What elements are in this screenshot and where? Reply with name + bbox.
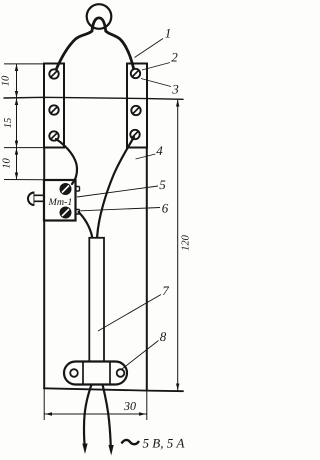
- svg-text:8: 8: [160, 329, 167, 344]
- svg-text:10: 10: [2, 158, 13, 169]
- svg-text:10: 10: [1, 75, 12, 86]
- svg-text:4: 4: [156, 143, 163, 158]
- svg-text:30: 30: [123, 399, 136, 413]
- svg-text:120: 120: [181, 234, 192, 251]
- svg-text:5 В, 5 А: 5 В, 5 А: [143, 436, 185, 451]
- svg-text:15: 15: [3, 118, 14, 129]
- svg-text:1: 1: [165, 26, 172, 41]
- svg-text:Мт-1: Мт-1: [48, 197, 73, 208]
- svg-text:2: 2: [171, 50, 178, 65]
- svg-text:7: 7: [162, 283, 169, 298]
- svg-text:5: 5: [159, 177, 166, 192]
- svg-text:3: 3: [171, 82, 179, 97]
- svg-text:6: 6: [162, 201, 169, 216]
